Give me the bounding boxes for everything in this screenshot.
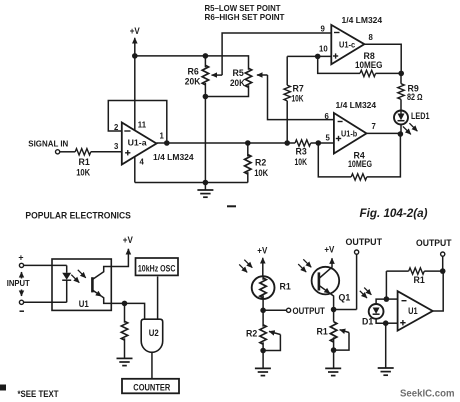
svg-text:1: 1 xyxy=(160,132,165,141)
svg-text:R5: R5 xyxy=(233,68,244,78)
svg-text:R1: R1 xyxy=(317,327,328,337)
svg-text:10K: 10K xyxy=(292,94,304,104)
svg-text:2: 2 xyxy=(114,123,119,132)
svg-text:Q1: Q1 xyxy=(339,293,351,303)
svg-text:10MEG: 10MEG xyxy=(348,159,372,169)
svg-text:3: 3 xyxy=(114,142,119,151)
svg-text:U1-c: U1-c xyxy=(339,40,355,50)
svg-text:1/4 LM324: 1/4 LM324 xyxy=(153,152,194,162)
svg-text:U1-b: U1-b xyxy=(341,129,357,139)
svg-text:POPULAR ELECTRONICS: POPULAR ELECTRONICS xyxy=(25,211,130,222)
svg-text:R1: R1 xyxy=(414,275,425,285)
svg-text:INPUT: INPUT xyxy=(7,279,30,288)
svg-text:LED1: LED1 xyxy=(411,111,430,121)
svg-text:R1: R1 xyxy=(79,157,90,167)
svg-text:R3: R3 xyxy=(296,147,307,157)
svg-text:10: 10 xyxy=(319,45,328,54)
svg-text:10K: 10K xyxy=(254,168,269,178)
svg-text:6: 6 xyxy=(325,112,330,121)
svg-text:R6: R6 xyxy=(188,67,199,77)
svg-text:*SEE TEXT: *SEE TEXT xyxy=(18,389,60,399)
svg-text:R2: R2 xyxy=(246,329,257,339)
svg-text:R5–LOW SET POINT: R5–LOW SET POINT xyxy=(205,4,281,13)
svg-text:1/4 LM324: 1/4 LM324 xyxy=(336,100,377,110)
svg-text:SIGNAL IN: SIGNAL IN xyxy=(28,140,68,149)
svg-text:20K: 20K xyxy=(230,78,246,88)
svg-text:8: 8 xyxy=(369,33,374,42)
svg-text:U1: U1 xyxy=(79,299,89,309)
svg-text:R7: R7 xyxy=(293,84,304,94)
svg-text:5: 5 xyxy=(326,134,331,143)
svg-text:U1-a: U1-a xyxy=(128,138,147,148)
svg-text:D1: D1 xyxy=(362,317,373,327)
svg-text:OUTPUT: OUTPUT xyxy=(293,306,326,316)
svg-text:+V: +V xyxy=(130,26,140,36)
svg-text:Fig. 104-2(a): Fig. 104-2(a) xyxy=(360,208,428,220)
svg-text:1/4 LM324: 1/4 LM324 xyxy=(342,15,383,25)
svg-text:10K: 10K xyxy=(76,168,91,178)
svg-text:R2: R2 xyxy=(255,158,266,168)
svg-text:R1: R1 xyxy=(280,282,291,292)
svg-text:10kHz OSC: 10kHz OSC xyxy=(138,264,176,275)
svg-text:+V: +V xyxy=(123,235,133,245)
svg-text:7: 7 xyxy=(372,122,376,131)
svg-text:+: + xyxy=(18,252,23,262)
svg-text:+V: +V xyxy=(324,245,334,255)
svg-text:SeekIC.com: SeekIC.com xyxy=(400,389,455,400)
svg-text:OUTPUT: OUTPUT xyxy=(346,237,383,247)
svg-text:9: 9 xyxy=(321,25,326,34)
svg-text:COUNTER: COUNTER xyxy=(133,382,170,393)
svg-text:U2: U2 xyxy=(149,328,159,338)
svg-text:4: 4 xyxy=(140,158,145,167)
svg-text:OUTPUT: OUTPUT xyxy=(416,238,452,248)
svg-text:20K: 20K xyxy=(185,77,201,87)
svg-text:+V: +V xyxy=(257,246,267,256)
svg-text:10K: 10K xyxy=(295,157,308,167)
svg-text:10MEG: 10MEG xyxy=(355,60,383,70)
svg-text:U1: U1 xyxy=(408,306,418,316)
svg-text:82 Ω: 82 Ω xyxy=(407,92,423,102)
svg-text:R6–HIGH SET POINT: R6–HIGH SET POINT xyxy=(205,13,285,22)
svg-text:11: 11 xyxy=(138,121,147,130)
